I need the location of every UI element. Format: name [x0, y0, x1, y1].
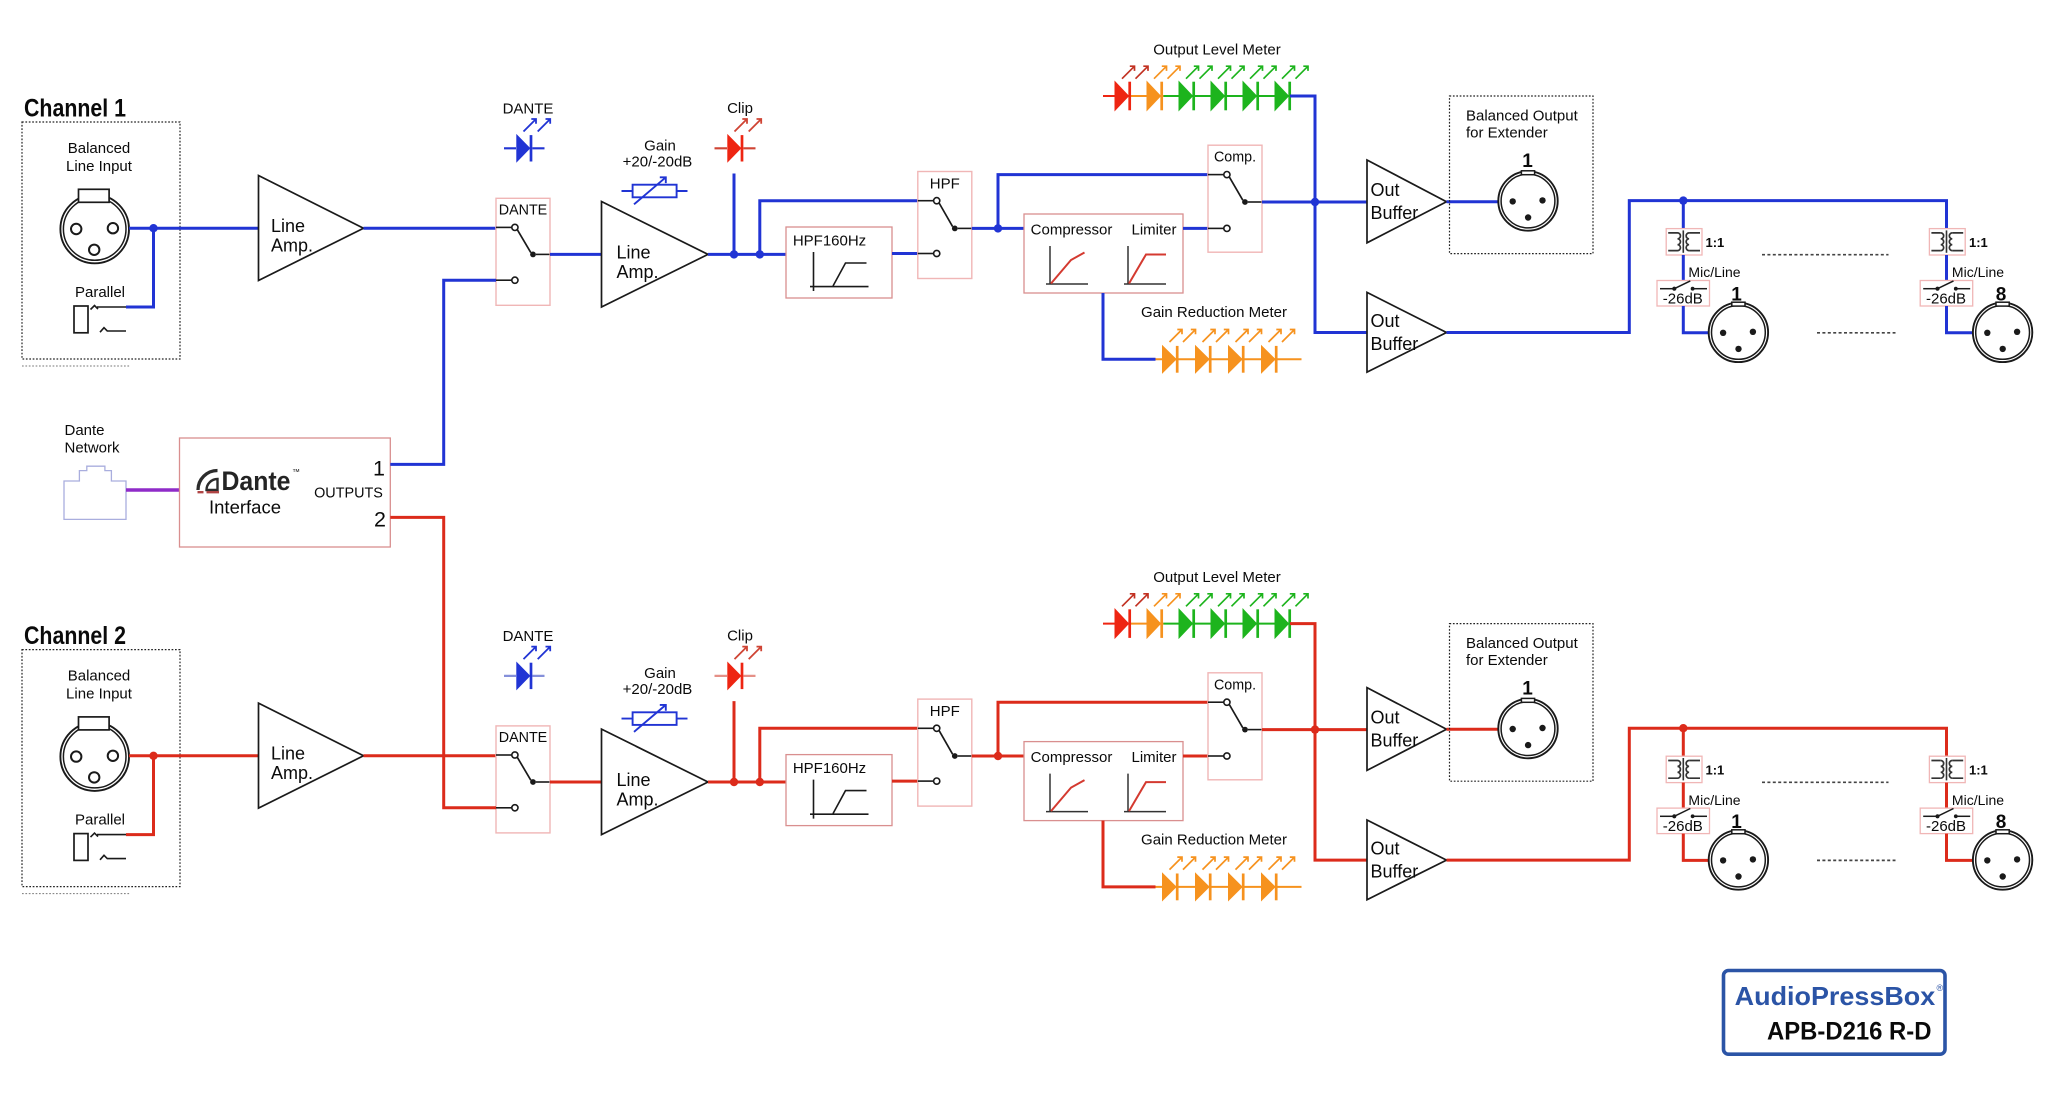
XLR male extender output CH1 — [1498, 171, 1557, 230]
svg-text:DANTE: DANTE — [503, 101, 554, 118]
filter block HPF160Hz CH2 — [786, 755, 892, 826]
variable resistor: gain trimmer CH2 — [622, 718, 688, 720]
attenuator -26dB out1 CH2 — [1657, 808, 1710, 834]
switch Comp bypass CH2 top contact — [1208, 701, 1224, 703]
switch DANTE source select CH1 lever — [517, 230, 531, 253]
wire: Line Amp to DANTE switch CH1 — [364, 227, 497, 230]
switch Comp bypass CH1 enclosure — [1208, 145, 1262, 252]
svg-text:Output Level Meter: Output Level Meter — [1153, 42, 1281, 59]
block: Dante Interface U1 — [180, 438, 391, 547]
op-amp: Line Amp input stage CH1 — [259, 176, 364, 281]
wire: parallel jack tap CH1 — [126, 228, 154, 307]
svg-text:1:1: 1:1 — [1706, 762, 1725, 777]
transformer T8 1:1 CH1 — [1929, 229, 1965, 255]
switch Comp bypass CH2 common pole — [1242, 727, 1248, 733]
svg-text:APB-D216 R-D: APB-D216 R-D — [1767, 1017, 1932, 1045]
svg-text:1:1: 1:1 — [1969, 762, 1988, 777]
svg-text:Mic/Line: Mic/Line — [1952, 792, 2004, 808]
switch DANTE source select CH2 bottom contact — [496, 807, 512, 809]
switch HPF select CH2 bottom contact — [918, 780, 934, 782]
switch HPF select CH1 lever — [939, 203, 953, 227]
switch DANTE source select CH1 top contact — [496, 226, 512, 228]
parallel TRS jack connector CH1 — [74, 306, 88, 333]
input section box CH2 — [22, 650, 180, 887]
svg-text:Dante: Dante — [65, 422, 105, 439]
extender output section box CH1 — [1450, 96, 1594, 254]
wire: comp switch to out buffers CH1 — [1262, 201, 1367, 204]
wire: meter trunk CH1 — [1290, 96, 1367, 333]
attenuator -26dB out8 CH2 — [1920, 808, 1973, 834]
LED bar: gain reduction meter CH1 — [1156, 358, 1302, 360]
switch DANTE source select CH2 top contact — [496, 754, 512, 756]
switch HPF select CH1 top contact — [918, 200, 934, 202]
wire: DANTE switch to Line Amp 2 CH2 — [550, 781, 602, 784]
variable resistor: gain trimmer CH1 — [622, 190, 688, 192]
block: Compressor Limiter CH1 — [1024, 214, 1183, 293]
svg-text:Buffer: Buffer — [1371, 731, 1419, 751]
svg-text:1: 1 — [373, 457, 385, 481]
LED: Clip indicator CH2 — [715, 675, 756, 677]
svg-text:2: 2 — [374, 508, 386, 532]
switch DANTE source select CH2 lever — [517, 757, 531, 780]
svg-text:Parallel: Parallel — [75, 284, 125, 301]
stray dotted line under input box CH2 — [22, 893, 130, 895]
svg-text:-26dB: -26dB — [1926, 818, 1966, 835]
switch HPF select CH1 bottom contact — [918, 253, 934, 255]
svg-text:Network: Network — [65, 440, 121, 457]
op-amp: Out Buffer extender CH1 — [1367, 160, 1447, 243]
LED: DANTE indicator CH1 — [504, 147, 545, 149]
svg-text:1: 1 — [1522, 678, 1533, 699]
XLR male output 8 CH1 — [1973, 303, 2032, 362]
svg-text:Balanced: Balanced — [68, 140, 131, 157]
svg-text:Buffer: Buffer — [1371, 203, 1419, 223]
svg-text:DANTE: DANTE — [499, 203, 547, 219]
svg-text:Comp.: Comp. — [1214, 150, 1256, 166]
switch Comp bypass CH1 lever — [1229, 177, 1243, 200]
junction: HPF bypass tap CH2 — [756, 778, 764, 786]
switch HPF select CH2 top contact — [918, 727, 934, 729]
svg-text:Output Level Meter: Output Level Meter — [1153, 569, 1281, 586]
wire: Dante network link — [126, 488, 180, 492]
wire: pad to XLR8 CH1 — [1947, 306, 1973, 333]
wire: gain reduction meter feed CH1 — [1103, 293, 1156, 359]
LED bar: output level meter CH1 — [1103, 95, 1131, 97]
svg-text:Line Input: Line Input — [66, 686, 133, 703]
ellipsis upper CH1 — [1762, 254, 1889, 256]
svg-text:Buffer: Buffer — [1371, 862, 1419, 882]
parallel TRS jack connector CH2 — [74, 834, 88, 861]
wire: compressor out CH2 — [1183, 755, 1208, 758]
svg-text:Compressor: Compressor — [1031, 749, 1113, 766]
wire: T8 to pad CH1 — [1945, 255, 1948, 281]
svg-text:Amp.: Amp. — [271, 236, 313, 256]
op-amp: Out Buffer distribution CH1 — [1367, 292, 1447, 372]
switch DANTE source select CH1 bottom contact — [496, 279, 512, 281]
wire: T1 to pad CH2 — [1682, 783, 1685, 809]
svg-text:Amp.: Amp. — [617, 790, 659, 810]
logo box AudioPressBox — [1724, 971, 1946, 1055]
svg-text:HPF160Hz: HPF160Hz — [793, 232, 866, 249]
wire: Dante out 1 to CH1 — [390, 280, 496, 464]
wire: pad to XLR1 CH1 — [1683, 306, 1708, 333]
svg-text:Balanced Output: Balanced Output — [1466, 635, 1579, 652]
stray dotted line under input box CH1 — [22, 365, 130, 367]
wire: branch to transformer 1 CH2 — [1682, 728, 1685, 756]
extender output section box CH2 — [1450, 624, 1594, 782]
svg-text:Gain: Gain — [644, 137, 676, 154]
wire: clip detector tap CH1 — [733, 174, 736, 255]
wire: distribution bus CH2 — [1447, 728, 1947, 860]
wire: pad to XLR8 CH2 — [1947, 834, 1973, 861]
junction: compressor bypass tap CH1 — [994, 224, 1002, 232]
svg-text:Mic/Line: Mic/Line — [1952, 264, 2004, 280]
wire: gain reduction meter feed CH2 — [1103, 821, 1156, 887]
switch DANTE source select CH1 enclosure — [496, 198, 550, 305]
svg-text:Parallel: Parallel — [75, 812, 125, 829]
wire: Line Amp 2 to HPF160Hz CH1 — [708, 253, 786, 256]
attenuator -26dB out1 CH1 — [1657, 281, 1710, 307]
switch Comp bypass CH2 lever — [1229, 705, 1243, 728]
svg-text:Line: Line — [271, 744, 305, 764]
wire: clip detector tap CH2 — [733, 701, 736, 782]
wire: DANTE switch to Line Amp 2 CH1 — [550, 253, 602, 256]
wire: branch to transformer 1 CH1 — [1682, 201, 1685, 229]
svg-text:DANTE: DANTE — [499, 730, 547, 746]
svg-text:Line Input: Line Input — [66, 158, 133, 175]
ellipsis lower CH1 — [1817, 332, 1896, 334]
block: Compressor Limiter CH2 — [1024, 742, 1183, 821]
svg-text:for Extender: for Extender — [1466, 652, 1548, 669]
junction: compressor bypass tap CH2 — [994, 752, 1002, 760]
wire: Dante out 2 to CH2 — [390, 517, 496, 807]
switch HPF select CH2 common pole — [952, 753, 958, 759]
op-amp: Out Buffer extender CH2 — [1367, 688, 1447, 771]
wire: pad to XLR1 CH2 — [1683, 834, 1708, 861]
svg-text:-26dB: -26dB — [1663, 290, 1703, 307]
svg-text:1: 1 — [1522, 151, 1533, 172]
switch DANTE source select CH2 common pole — [530, 779, 536, 785]
svg-text:Amp.: Amp. — [617, 262, 659, 282]
wire: compressor bypass CH1 — [998, 175, 1208, 229]
junction: clip tap CH1 — [730, 250, 738, 258]
XLR male output 8 CH2 — [1973, 830, 2032, 889]
wire: meter trunk CH2 — [1290, 624, 1367, 861]
svg-text:Mic/Line: Mic/Line — [1688, 264, 1740, 280]
wire: T1 to pad CH1 — [1682, 255, 1685, 281]
svg-text:Clip: Clip — [727, 628, 753, 645]
wire: distribution bus CH1 — [1447, 201, 1947, 333]
transformer T8 1:1 CH2 — [1929, 756, 1965, 782]
junction: output 1 branch CH1 — [1679, 196, 1687, 204]
svg-text:Comp.: Comp. — [1214, 677, 1256, 693]
switch DANTE source select CH1 common pole — [530, 252, 536, 258]
ellipsis upper CH2 — [1762, 781, 1889, 783]
wire: input XLR to Line Amp CH1 — [129, 227, 259, 230]
svg-text:Out: Out — [1371, 839, 1400, 859]
ellipsis lower CH2 — [1817, 859, 1896, 861]
LED: DANTE indicator CH2 — [504, 675, 545, 677]
svg-text:Channel 1: Channel 1 — [24, 95, 126, 123]
svg-text:Interface: Interface — [209, 497, 281, 518]
attenuator -26dB out8 CH1 — [1920, 281, 1973, 307]
XLR male output 1 CH2 — [1709, 830, 1768, 889]
svg-text:AudioPressBox: AudioPressBox — [1735, 981, 1936, 1011]
svg-text:Out: Out — [1371, 708, 1400, 728]
wire: Line Amp 2 to HPF160Hz CH2 — [708, 781, 786, 784]
junction: output 1 branch CH2 — [1679, 724, 1687, 732]
svg-text:Line: Line — [617, 243, 651, 263]
junction: clip tap CH2 — [730, 778, 738, 786]
XLR male output 1 CH1 — [1709, 303, 1768, 362]
svg-text:™: ™ — [292, 468, 300, 477]
wire: HPF bypass CH2 — [760, 728, 918, 782]
switch Comp bypass CH1 bottom contact — [1208, 227, 1224, 229]
switch HPF select CH2 lever — [939, 731, 953, 755]
svg-text:Balanced Output: Balanced Output — [1466, 107, 1579, 124]
svg-text:Compressor: Compressor — [1031, 221, 1113, 238]
svg-text:HPF: HPF — [930, 176, 960, 193]
svg-text:+20/-20dB: +20/-20dB — [623, 153, 693, 170]
RJ45 connector Dante network — [64, 466, 126, 519]
svg-text:1:1: 1:1 — [1706, 235, 1725, 250]
svg-text:Buffer: Buffer — [1371, 334, 1419, 354]
svg-text:Line: Line — [271, 216, 305, 236]
XLR male extender output CH2 — [1498, 699, 1557, 758]
LED bar: output level meter CH2 — [1103, 623, 1131, 625]
wire: HPF bypass CH1 — [760, 201, 918, 255]
XLR female input connector CH1 — [60, 195, 129, 264]
junction: input parallel tap CH2 — [149, 752, 157, 760]
svg-text:-26dB: -26dB — [1926, 290, 1966, 307]
wire: Line Amp to DANTE switch CH2 — [364, 754, 497, 757]
wire: HPF160Hz out CH1 — [892, 252, 918, 255]
svg-text:Clip: Clip — [727, 100, 753, 117]
junction: output trunk CH1 — [1311, 198, 1319, 206]
svg-text:Mic/Line: Mic/Line — [1688, 792, 1740, 808]
svg-text:-26dB: -26dB — [1663, 818, 1703, 835]
svg-text:+20/-20dB: +20/-20dB — [623, 681, 693, 698]
op-amp: Out Buffer distribution CH2 — [1367, 820, 1447, 900]
svg-text:Balanced: Balanced — [68, 668, 131, 685]
LED bar: gain reduction meter CH2 — [1156, 886, 1302, 888]
svg-text:for Extender: for Extender — [1466, 124, 1548, 141]
switch Comp bypass CH2 bottom contact — [1208, 755, 1224, 757]
switch Comp bypass CH2 enclosure — [1208, 673, 1262, 780]
svg-text:Gain Reduction Meter: Gain Reduction Meter — [1141, 831, 1287, 848]
svg-text:Gain Reduction Meter: Gain Reduction Meter — [1141, 304, 1287, 321]
svg-text:HPF: HPF — [930, 703, 960, 720]
junction: output trunk CH2 — [1311, 725, 1319, 733]
LED: Clip indicator CH1 — [715, 147, 756, 149]
svg-text:Gain: Gain — [644, 665, 676, 682]
switch Comp bypass CH1 top contact — [1208, 174, 1224, 176]
svg-text:Limiter: Limiter — [1131, 221, 1176, 238]
wire: HPF switch to Compressor CH1 — [972, 227, 1024, 230]
filter block HPF160Hz CH1 — [786, 227, 892, 298]
wire: comp switch to out buffers CH2 — [1262, 728, 1367, 731]
wire: out buffer to extender XLR CH2 — [1447, 728, 1499, 731]
op-amp: Line Amp gain stage CH1 — [602, 202, 709, 308]
junction: input parallel tap CH1 — [149, 224, 157, 232]
transformer T1 1:1 CH2 — [1666, 756, 1702, 782]
svg-text:OUTPUTS: OUTPUTS — [314, 486, 383, 502]
svg-text:1:1: 1:1 — [1969, 235, 1988, 250]
svg-text:Amp.: Amp. — [271, 763, 313, 783]
switch HPF select CH1 common pole — [952, 226, 958, 232]
wire: input XLR to Line Amp CH2 — [129, 754, 259, 757]
switch DANTE source select CH2 enclosure — [496, 726, 550, 833]
wire: compressor bypass CH2 — [998, 702, 1208, 756]
switch HPF select CH2 enclosure — [918, 699, 972, 806]
Dante logo mark — [198, 471, 218, 491]
transformer T1 1:1 CH1 — [1666, 229, 1702, 255]
svg-text:Line: Line — [617, 770, 651, 790]
wire: HPF switch to Compressor CH2 — [972, 755, 1024, 758]
input section box CH1 — [22, 122, 180, 359]
svg-text:Limiter: Limiter — [1131, 749, 1176, 766]
svg-text:Channel 2: Channel 2 — [24, 622, 126, 650]
svg-text:DANTE: DANTE — [503, 628, 554, 645]
wire: compressor out CH1 — [1183, 227, 1208, 230]
svg-text:Out: Out — [1371, 311, 1400, 331]
svg-text:Out: Out — [1371, 180, 1400, 200]
wire: out buffer to extender XLR CH1 — [1447, 200, 1499, 203]
wire: T8 to pad CH2 — [1945, 783, 1948, 809]
svg-text:HPF160Hz: HPF160Hz — [793, 760, 866, 777]
svg-text:Dante: Dante — [222, 466, 291, 496]
svg-text:®: ® — [1937, 983, 1944, 993]
switch HPF select CH1 enclosure — [918, 172, 972, 279]
switch Comp bypass CH1 common pole — [1242, 199, 1248, 205]
wire: HPF160Hz out CH2 — [892, 780, 918, 783]
junction: HPF bypass tap CH1 — [756, 250, 764, 258]
op-amp: Line Amp input stage CH2 — [259, 703, 364, 808]
XLR female input connector CH2 — [60, 722, 129, 791]
op-amp: Line Amp gain stage CH2 — [602, 729, 709, 835]
wire: parallel jack tap CH2 — [126, 756, 154, 835]
